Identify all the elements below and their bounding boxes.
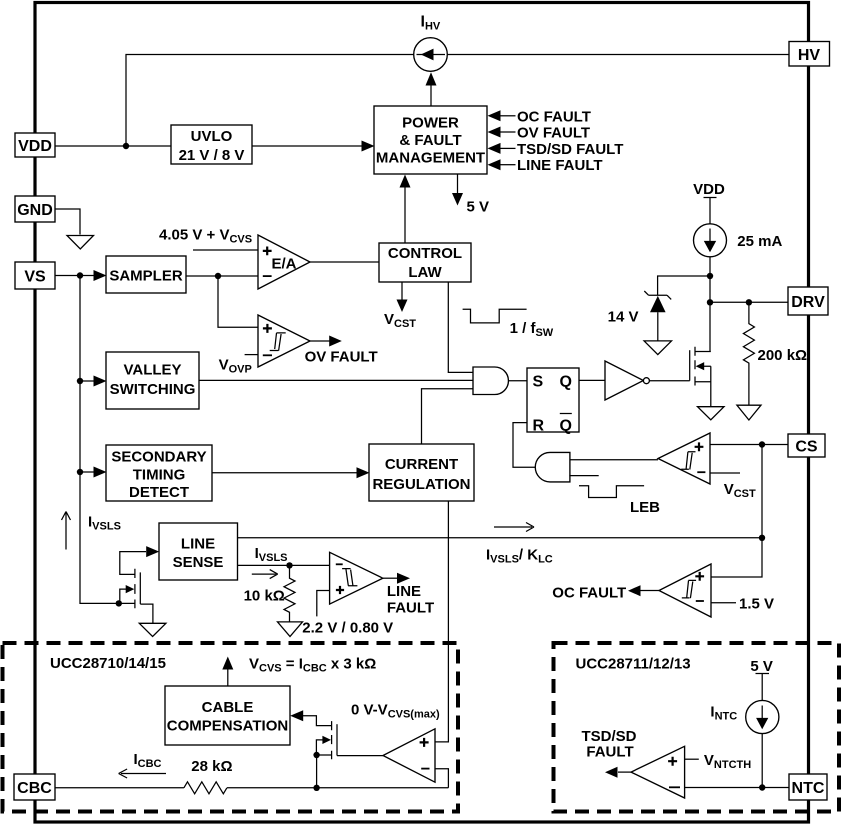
junction NTC node: [759, 784, 765, 790]
block LINE SENSE: [159, 523, 238, 580]
svg-text:UVLO: UVLO: [191, 128, 233, 145]
wire VALLEY SWITCHING to AND gate: [199, 379, 473, 381]
wire GND to ground: [55, 209, 80, 235]
gate LEB AND: [535, 452, 598, 482]
block CABLE COMPENSATION: [165, 686, 290, 745]
latch SR: [527, 368, 579, 435]
wire to zener: [658, 276, 710, 295]
svg-text:LINE: LINE: [181, 536, 215, 553]
arrowhead into LINE SENSE: [146, 546, 159, 557]
comparator OV: [258, 315, 310, 367]
wire bus to VALLEY SWITCHING: [80, 380, 94, 382]
junction zener node: [707, 273, 713, 279]
wire CS comp to LEB gate: [569, 459, 658, 461]
svg-text:200 kΩ: 200 kΩ: [758, 347, 808, 364]
svg-text:GND: GND: [17, 202, 53, 219]
wire INTC to NTC node: [761, 734, 763, 788]
thin arrow right on KLC line: [494, 523, 534, 532]
svg-text:& FAULT: & FAULT: [399, 132, 461, 149]
svg-text:2.2 V / 0.80 V: 2.2 V / 0.80 V: [302, 620, 393, 637]
svg-text:UCC28711/12/13: UCC28711/12/13: [576, 656, 691, 673]
ground driver FET: [698, 407, 725, 420]
block SAMPLER: [106, 256, 186, 293]
svg-text:CBC: CBC: [17, 780, 52, 797]
wire resistor to op-amp node: [227, 787, 448, 789]
transistor driver FET: [690, 347, 711, 407]
arrowhead into VALLEY SWITCHING: [94, 376, 107, 387]
svg-text:S: S: [533, 374, 544, 391]
fault input OV FAULT: [488, 125, 591, 142]
wire CBC to resistor: [55, 787, 184, 789]
svg-text:NTC: NTC: [792, 780, 825, 797]
current source IHV: [414, 38, 448, 72]
fault input LINE FAULT: [488, 157, 603, 174]
pin VDD: [15, 133, 55, 157]
wire 5V to INTC source: [761, 674, 763, 702]
wire OV comparator tap: [218, 276, 258, 327]
svg-text:SECONDARY: SECONDARY: [111, 449, 206, 466]
ground 200k: [737, 405, 761, 420]
junction 200k node: [746, 299, 752, 305]
wire LINE SENSE to KLC node: [238, 537, 763, 539]
arrowhead into SECONDARY TIMING DETECT: [94, 467, 107, 478]
wire op-amp minus to CBC node: [435, 769, 448, 788]
junction CS node: [759, 441, 765, 447]
thin arrow right below wire: [252, 570, 278, 579]
junction line sense gate node: [116, 600, 122, 606]
block SECONDARY TIMING DETECT: [106, 445, 212, 501]
junction source node: [313, 752, 319, 758]
comparator OC: [659, 564, 711, 617]
wire LINE SENSE to LINE FAULT comp: [238, 564, 330, 566]
dashed box UCC28710/14/15: [3, 643, 459, 812]
wire CS node down to OC comp: [711, 445, 762, 578]
svg-text:VALLEY: VALLEY: [123, 362, 181, 379]
op-amp E/A: [258, 235, 310, 289]
svg-text:REGULATION: REGULATION: [372, 476, 470, 493]
svg-text:SENSE: SENSE: [173, 554, 224, 571]
wire FET to CABLE COMPENSATION: [303, 716, 332, 726]
wire VDD riser to IHV: [126, 55, 414, 147]
junction 10k node: [286, 562, 292, 568]
wire VOVP stub: [245, 354, 258, 356]
wire current source to drain: [709, 257, 711, 352]
arrow IVSLS bus up: [62, 512, 71, 550]
transistor line sense FET: [119, 552, 153, 624]
label VDD rail: [693, 181, 725, 198]
svg-text:OV FAULT: OV FAULT: [305, 349, 378, 366]
ground symbol GND: [67, 236, 94, 250]
buffer driver: [605, 361, 649, 400]
wire VNTCTH stub: [685, 758, 699, 760]
svg-text:OC FAULT: OC FAULT: [552, 585, 626, 602]
wire AND gate third input from CURRENT REGULATION: [422, 389, 474, 444]
diode zener 14 V: [644, 291, 671, 341]
waveform LEB: [579, 486, 644, 498]
wire 2.2V reference: [317, 591, 330, 617]
wire op-amp out to FET gate: [337, 755, 383, 757]
wire TSD comp minus to NTC node: [685, 787, 763, 789]
pin VS: [15, 262, 55, 289]
svg-text:LEB: LEB: [630, 499, 660, 516]
resistor 28 kOhm: [184, 782, 227, 794]
arrow TSD/SD FAULT output: [581, 728, 636, 778]
svg-text:FAULT: FAULT: [586, 744, 633, 761]
arrowhead up into IHV: [426, 72, 437, 85]
junction STD node: [77, 469, 83, 475]
arrowhead into CABLE COMPENSATION: [290, 710, 303, 721]
wire E/A to CONTROL LAW: [310, 261, 379, 263]
svg-text:TIMING: TIMING: [133, 467, 186, 484]
svg-text:OC FAULT: OC FAULT: [517, 108, 591, 125]
svg-text:SWITCHING: SWITCHING: [110, 381, 196, 398]
wire source node down: [316, 755, 318, 788]
fault input TSD/SD FAULT: [488, 141, 624, 158]
op-amp cable comp: [383, 729, 435, 782]
wire CS comp plus to CS pin: [710, 444, 788, 446]
wire CONTROL LAW down to AND gate: [448, 282, 473, 372]
svg-text:R: R: [533, 418, 545, 435]
svg-text:VDD: VDD: [18, 138, 52, 155]
junction valley node: [77, 378, 83, 384]
wire VS bus vertical: [80, 276, 116, 604]
comparator CS: [658, 433, 710, 484]
wire VDD rail to current source: [709, 198, 711, 225]
block POWER & FAULT MANAGEMENT: [374, 106, 487, 174]
svg-text:LAW: LAW: [408, 264, 442, 281]
wire to DRV pin: [710, 301, 788, 303]
junction KLC node: [759, 535, 765, 541]
junction CBC node: [313, 785, 319, 791]
svg-text:10 kΩ: 10 kΩ: [244, 588, 285, 605]
wire AND1 to latch S: [509, 380, 528, 382]
wire P&FM up to IHV: [430, 85, 432, 106]
svg-text:25 mA: 25 mA: [737, 233, 782, 250]
arrow OV FAULT output: [305, 336, 378, 366]
block UVLO: [171, 125, 252, 164]
wire VS to SAMPLER: [55, 275, 94, 277]
svg-text:OV FAULT: OV FAULT: [517, 125, 590, 142]
arrowhead into SAMPLER: [94, 270, 107, 281]
svg-text:14 V: 14 V: [608, 309, 639, 326]
dashed box UCC28711/12/13: [554, 643, 840, 812]
svg-text:SAMPLER: SAMPLER: [109, 268, 183, 285]
thin arrow left ICBC: [119, 769, 166, 778]
wire LEB gate to latch R: [513, 423, 535, 468]
resistor 10 kOhm: [284, 565, 295, 622]
ground zener: [644, 341, 671, 355]
wire IHV to HV pin: [447, 54, 789, 56]
gate AND1: [473, 367, 508, 395]
wire CONTROL LAW up to P&FM: [404, 187, 406, 243]
svg-text:TSD/SD FAULT: TSD/SD FAULT: [517, 141, 623, 158]
svg-text:COMPENSATION: COMPENSATION: [167, 718, 288, 735]
pin GND: [15, 196, 55, 222]
svg-text:Q: Q: [560, 418, 572, 435]
waveform 1/fsw: [463, 309, 527, 323]
wire SAMPLER to E/A minus: [186, 275, 258, 277]
svg-text:LINE: LINE: [387, 583, 421, 600]
ground line sense FET: [139, 623, 166, 636]
pin HV: [789, 42, 830, 67]
wire CURRENT REGULATION to cable comp op-amp: [435, 501, 448, 742]
arrow VCVS output: [222, 657, 233, 687]
wire buffer to gate: [649, 380, 689, 382]
svg-text:28 kΩ: 28 kΩ: [191, 758, 232, 775]
wire UVLO to P&FM: [252, 145, 362, 147]
block CURRENT REGULATION: [369, 444, 474, 501]
comparator LINE FAULT: [330, 552, 383, 604]
svg-text:Q: Q: [560, 374, 572, 391]
junction VS node: [77, 272, 83, 278]
arrow VCST output: [384, 282, 416, 330]
pin CBC: [14, 774, 55, 800]
svg-text:MANAGEMENT: MANAGEMENT: [376, 150, 485, 167]
arrowhead into P&FM bottom: [400, 175, 411, 188]
svg-text:CONTROL: CONTROL: [388, 245, 462, 262]
junction VDD node: [123, 143, 129, 149]
svg-text:DETECT: DETECT: [129, 484, 189, 501]
svg-text:VDD: VDD: [693, 181, 725, 198]
label 5 V: [750, 658, 773, 675]
svg-text:CABLE: CABLE: [202, 699, 254, 716]
svg-text:FAULT: FAULT: [387, 600, 434, 617]
arrow LINE FAULT output: [383, 573, 434, 617]
comparator TSD/SD: [631, 746, 685, 798]
wire bus to SECONDARY TIMING DETECT: [80, 471, 94, 473]
svg-text:5 V: 5 V: [467, 199, 490, 216]
junction E/A input node: [215, 273, 221, 279]
arrow OC FAULT output: [552, 585, 659, 602]
wire VDD to UVLO: [55, 145, 171, 147]
svg-text:21 V / 8 V: 21 V / 8 V: [179, 147, 245, 164]
svg-text:CURRENT: CURRENT: [385, 456, 458, 473]
wire 1.5V stub: [711, 602, 736, 604]
svg-text:CS: CS: [795, 439, 818, 456]
current source 25 mA: [694, 224, 727, 257]
svg-text:DRV: DRV: [791, 294, 825, 311]
fault input OC FAULT: [488, 108, 591, 125]
svg-text:1.5 V: 1.5 V: [739, 596, 774, 613]
wire latch Q to buffer: [579, 379, 605, 381]
wire E/A plus reference: [193, 249, 258, 251]
pin CS: [788, 434, 825, 457]
arrowhead into P&FM: [362, 141, 375, 152]
pin DRV: [788, 287, 828, 315]
svg-text:POWER: POWER: [402, 115, 459, 132]
svg-text:5 V: 5 V: [750, 658, 773, 675]
wire VCST stub: [710, 472, 740, 474]
wire NTC node to NTC pin: [762, 787, 789, 789]
svg-text:TSD/SD: TSD/SD: [581, 728, 636, 745]
ground 10k: [278, 622, 303, 637]
arrow 5 V output: [452, 174, 489, 216]
block VALLEY SWITCHING: [106, 352, 199, 409]
current source INTC: [746, 700, 779, 733]
junction DRV node: [707, 299, 713, 305]
wire STD to CURRENT REGULATION: [212, 472, 357, 474]
svg-text:E/A: E/A: [272, 256, 297, 273]
block CONTROL LAW: [379, 243, 471, 282]
svg-text:HV: HV: [798, 47, 821, 64]
svg-text:VS: VS: [24, 269, 46, 286]
transistor cable comp FET: [316, 721, 337, 759]
svg-text:UCC28710/14/15: UCC28710/14/15: [50, 655, 166, 672]
pin NTC: [789, 774, 827, 800]
svg-text:LINE FAULT: LINE FAULT: [517, 157, 603, 174]
arrowhead into CURRENT REGULATION: [357, 467, 370, 478]
resistor 200 kOhm: [743, 302, 754, 405]
